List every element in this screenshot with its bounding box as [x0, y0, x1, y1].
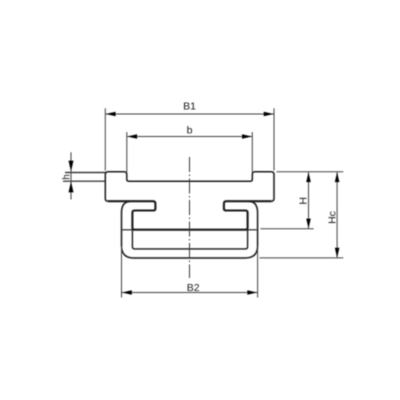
svg-text:B1: B1	[183, 101, 196, 113]
svg-text:H: H	[298, 197, 310, 205]
svg-text:Hc: Hc	[326, 211, 338, 224]
svg-text:h: h	[62, 174, 73, 180]
svg-text:b: b	[187, 125, 193, 137]
svg-text:B2: B2	[187, 282, 200, 294]
